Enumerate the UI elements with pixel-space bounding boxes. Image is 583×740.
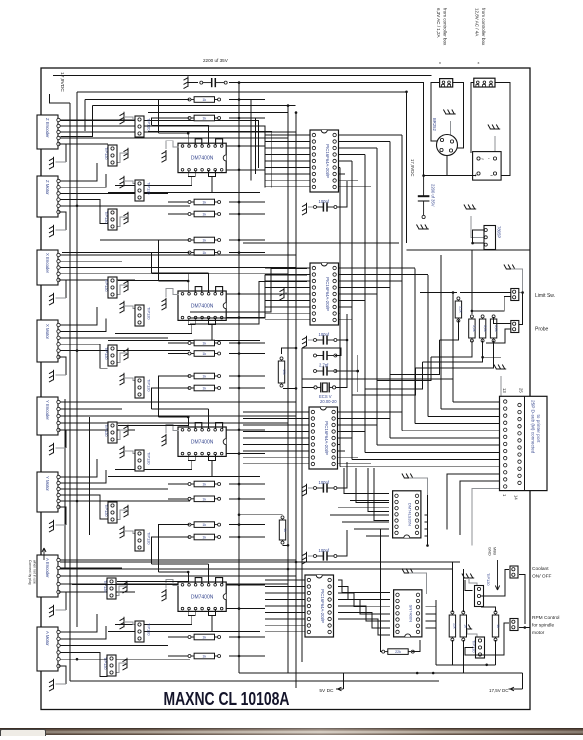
resistor X R3	[188, 373, 221, 379]
svg-text:1k: 1k	[202, 342, 206, 346]
wire A motor gnd	[59, 666, 66, 684]
wire IC microcontroller U3 PIC16F64A rpin 9	[336, 463, 371, 465]
wire IC microcontroller U2 PIC16F64A rpin 2	[337, 273, 428, 275]
svg-text:1k: 1k	[202, 213, 206, 217]
junction net 7	[238, 201, 241, 204]
wire IC microcontroller U2 PIC16F64A lpin 1	[265, 267, 311, 269]
wire bundle v4	[376, 148, 378, 445]
svg-text:TIP120: TIP120	[103, 657, 108, 670]
wire IC microcontroller U1 PIC16F64A lpin 5	[265, 160, 311, 162]
wire rect gnd lead	[494, 136, 496, 152]
wire PIC4 net 2	[338, 587, 390, 600]
connector Y Encoder	[37, 397, 60, 435]
wire IC microcontroller U2 PIC16F64A rpin 3	[337, 280, 402, 282]
wire X motor gnd	[59, 357, 66, 375]
resistor X R2	[188, 351, 221, 357]
wire Z under bus2	[108, 192, 260, 194]
ground Y IC	[162, 434, 167, 446]
wire IC microcontroller U4 PIC16F64A lpin 1	[265, 579, 306, 581]
wire 17.9VDC label hook	[49, 94, 70, 103]
svg-text:2,2k: 2,2k	[459, 306, 463, 313]
connector A Motor	[37, 627, 60, 671]
junction X motor pin5 rail	[76, 349, 79, 352]
wire Y encoder pin 3	[56, 415, 296, 417]
connector Z Encoder	[37, 115, 60, 149]
wire top gamma 4	[234, 118, 255, 174]
wire IC microcontroller U4 PIC16F64A lpin 4	[265, 598, 306, 600]
wire Z IC top bus2	[152, 124, 209, 126]
wire IC microcontroller U3 PIC16F64A rpin 1	[336, 411, 402, 413]
wire 74LS20 lpin 2	[350, 500, 389, 502]
junction A rpin top bus	[238, 584, 241, 587]
svg-text:GND: GND	[488, 547, 493, 556]
svg-text:2,2k: 2,2k	[494, 325, 498, 332]
wire Y IC top bus1	[159, 416, 189, 418]
wire Z R1 drop	[159, 100, 190, 134]
wire A motor pin 4	[57, 652, 108, 676]
wire A R1 drop	[159, 525, 190, 572]
wire limit row	[420, 292, 457, 294]
ground Z TIP120 3	[120, 176, 125, 188]
wire probe pin1	[494, 317, 511, 324]
resistor Z R6	[188, 250, 221, 256]
wire IC microcontroller U1 PIC16F64A rpin 5	[337, 160, 352, 162]
wire Z motor pin 4	[57, 200, 108, 224]
junction Y rpin top bus	[238, 429, 241, 432]
resistor Y R1	[188, 481, 221, 487]
ground Y motor	[49, 520, 54, 532]
wire 74LS20 lpin 5	[342, 521, 389, 523]
wire IC microcontroller U3 PIC16F64A lpin 3	[243, 424, 310, 426]
junction 5V bus top	[238, 81, 241, 84]
wire Z IC top stub2	[208, 125, 210, 145]
ground A encoder	[49, 605, 54, 617]
resistor Z R3	[188, 199, 221, 205]
svg-text:X Motor: X Motor	[45, 324, 50, 340]
wire R10k top	[282, 348, 297, 354]
svg-text:2,2k: 2,2k	[472, 325, 476, 332]
wire D-sub feed 4	[415, 423, 502, 425]
wire IC microcontroller U1 PIC16F64A lpin 7	[265, 173, 311, 175]
wire Rc3 bot	[495, 640, 497, 665]
svg-text:DM7400N: DM7400N	[191, 595, 214, 601]
wire Z IC bot drop2	[211, 177, 213, 193]
resistor R mid 1k	[279, 516, 287, 544]
gate bump right Y	[216, 423, 223, 429]
svg-text:TIP120: TIP120	[486, 573, 491, 586]
ground Y TIP120 4	[120, 526, 125, 538]
junction Rmid bottom	[287, 544, 290, 547]
wire sense jog 2	[377, 357, 431, 380]
svg-text:Limit Sw.: Limit Sw.	[535, 293, 555, 299]
wire 74LS20 gnd	[409, 478, 428, 495]
svg-text:TIP120: TIP120	[104, 147, 109, 160]
wire mid rail C	[301, 348, 303, 662]
capacitor crystal load b 2.7pf	[314, 366, 337, 375]
wire cap cluster right2	[335, 370, 358, 372]
wire Z encoder pin 3	[56, 131, 296, 133]
wire IC microcontroller U2 PIC16F64A lpin 4	[265, 286, 311, 288]
wire A IC rpin bot	[227, 608, 266, 610]
wire IC microcontroller U1 PIC16F64A rpin 3	[337, 147, 377, 149]
wire X R1 drop	[159, 240, 190, 281]
wire Y R1 right lead	[229, 483, 265, 485]
resistor R bias 22k	[382, 649, 415, 655]
wire top rail 2	[77, 92, 407, 243]
wire IC microcontroller U2 PIC16F64A rpin 7	[337, 306, 352, 308]
wire Z TIP 1 gnd	[124, 117, 136, 120]
wire mid rail A	[287, 106, 289, 673]
gate bump left Y	[195, 423, 202, 429]
wire IC microcontroller U1 PIC16F64A lpin 3	[265, 147, 311, 149]
wire A IC gnd stem	[166, 580, 178, 589]
wire IC microcontroller U2 PIC16F64A rpin 9	[337, 319, 352, 321]
wire Rc1 top	[451, 562, 453, 612]
ground A IC	[162, 589, 167, 601]
wire dsub gnd lead	[500, 376, 502, 396]
wire PIC2 stair 1	[190, 269, 307, 313]
gate bump right X	[216, 287, 223, 293]
wire bot bus 664	[436, 664, 496, 666]
wire Z IC top stub	[187, 133, 189, 145]
wire IC microcontroller U1 PIC16F64A lpin 8	[265, 179, 311, 181]
wire Rmid bottom lead	[283, 544, 289, 546]
wire IC microcontroller U1 PIC16F64A rpin 6	[337, 166, 340, 168]
IC microcontroller U1 PIC16F64A	[310, 130, 339, 192]
wire top gamma 3	[148, 112, 289, 114]
wire IC microcontroller U3 PIC16F64A lpin 9	[243, 463, 310, 465]
wire Z TIP 4 gnd	[116, 217, 128, 227]
resistor Rc3 1k	[492, 611, 500, 641]
svg-text:x: x	[439, 61, 441, 65]
svg-text:1k: 1k	[202, 523, 206, 527]
ground X TIP120 4	[120, 373, 125, 385]
wire X R3 left lead	[168, 375, 190, 377]
capacitor 100nf C1	[314, 202, 337, 211]
wire Z R5 left lead	[168, 239, 190, 241]
junction Z pin2 top	[187, 132, 190, 135]
wire A R2 right lead	[229, 655, 265, 657]
junction Z R2 bus	[238, 117, 241, 120]
wire rpm tip gnd stem	[467, 629, 477, 638]
IC quad NAND DM7400N Z axis	[178, 143, 226, 172]
wire A TIP 3 gnd	[115, 663, 127, 673]
wire PIC4 net 4	[338, 600, 390, 614]
wire IC microcontroller U3 PIC16F64A lpin 6	[243, 443, 310, 445]
wire D-sub feed 3	[428, 415, 502, 417]
wire IC microcontroller U4 PIC16F64A lpin 3	[265, 592, 306, 594]
resistor A R2	[188, 653, 221, 659]
arrow 5V DC	[336, 687, 343, 691]
svg-text:Z Encoder: Z Encoder	[45, 118, 50, 138]
svg-text:Connect by plug: Connect by plug	[28, 560, 32, 585]
svg-text:100nf: 100nf	[319, 480, 330, 485]
svg-text:PIC16F64A-20I/P: PIC16F64A-20I/P	[320, 589, 325, 623]
wire X motor pin 4	[57, 344, 108, 368]
transistor TIP120 X3	[104, 345, 117, 366]
wire xtal row bus	[302, 378, 454, 380]
wire Z motor pin 1	[57, 163, 97, 181]
resistor Z R2	[188, 115, 221, 121]
wire X R2 left lead	[168, 353, 190, 355]
wire Y R4 left lead	[168, 536, 190, 538]
svg-text:DM7400N: DM7400N	[191, 304, 214, 310]
wire Z IC bot bracket	[188, 170, 195, 176]
svg-text:1k: 1k	[202, 375, 206, 379]
ground Z TIP120 2	[124, 148, 129, 160]
junction X R1 bus	[238, 342, 241, 345]
wire top gamma 2	[61, 106, 93, 137]
svg-text:TIP120: TIP120	[147, 379, 152, 392]
wire 100nf C2 gnd stub	[308, 339, 313, 341]
wire IC microcontroller U1 PIC16F64A rpin 1	[337, 134, 402, 136]
wire 74LS20 lpin 3	[338, 507, 389, 509]
svg-text:DM7400N: DM7400N	[191, 440, 214, 446]
wire A IC bot drop2	[211, 615, 213, 631]
wire Y motor pin 3	[57, 488, 169, 490]
wire X encoder pin 4	[56, 273, 288, 275]
wire Z IC bot bracket2	[209, 170, 216, 176]
wire IC microcontroller U1 PIC16F64A rpin 8	[337, 179, 358, 181]
gate bump right Z	[216, 139, 223, 145]
wire Y R1 left lead	[168, 483, 190, 485]
wire A IC top bus1	[159, 571, 189, 573]
wire D-sub low feed 1	[447, 474, 502, 530]
wire D-sub feed 2	[441, 408, 502, 410]
wire Y motor pin 4	[57, 495, 108, 519]
wire Y R4 right lead	[229, 536, 265, 538]
wire A motor gnd stub	[56, 683, 66, 685]
svg-text:BR252: BR252	[432, 118, 437, 131]
svg-text:TIP120: TIP120	[147, 452, 152, 465]
wire X motor pin 2	[57, 318, 107, 331]
transistor TIP120 X2	[135, 305, 152, 326]
svg-text:DM74LS20N: DM74LS20N	[407, 503, 412, 526]
ground 7805	[464, 205, 476, 210]
gate bump left X	[195, 287, 202, 293]
wire mid rail gnd stub	[284, 292, 288, 294]
wire bundle v1	[339, 167, 341, 466]
junction Z R1 bus	[238, 98, 241, 101]
wire PIC2 stair 2	[190, 275, 307, 318]
ground TIP120 coolant	[462, 574, 474, 579]
svg-text:1k: 1k	[202, 483, 206, 487]
wire IC microcontroller U2 PIC16F64A lpin 6	[265, 299, 311, 301]
ground Y TIP120 3	[124, 505, 129, 517]
svg-text:1k: 1k	[496, 624, 500, 628]
wire limit line	[452, 293, 454, 402]
wire Z IC rpin bot	[227, 169, 266, 171]
wire A motor pin 2	[57, 626, 107, 639]
wire IC microcontroller U1 PIC16F64A lpin 2	[265, 140, 311, 142]
wire 100nf C4 gnd stub	[308, 487, 313, 489]
wire bundle v8	[427, 275, 429, 416]
wire probe line	[440, 255, 442, 409]
wire 74LS20 feed 3	[368, 468, 389, 512]
IC quad NAND SN7400N	[394, 590, 422, 637]
wire R10k bot	[283, 387, 296, 389]
wire IC microcontroller U1 PIC16F64A rpin 9	[337, 186, 371, 188]
wire PIC4 net 1	[338, 580, 390, 593]
junction net 14	[432, 672, 435, 675]
svg-text:100nf: 100nf	[319, 332, 330, 337]
crystal ECS	[314, 382, 336, 392]
wire X motor pin 5	[57, 350, 191, 352]
junction net 12	[426, 544, 429, 547]
junction 7805 in	[471, 242, 474, 245]
wire bottom bus y681	[70, 680, 439, 682]
svg-text:when not in use: when not in use	[33, 560, 37, 584]
wire Z IC rpin top	[227, 145, 266, 147]
resistor A R1	[188, 634, 221, 640]
wire crystal right	[336, 340, 347, 387]
ground Z TIP120 1	[120, 112, 125, 124]
connector 25P D-sub J3	[500, 396, 548, 490]
svg-text:for spindle: for spindle	[532, 623, 554, 629]
wire Y TIP 3 gnd	[116, 510, 128, 520]
junction Y pin2 top	[187, 416, 190, 419]
junction X rpin top bus	[238, 293, 241, 296]
svg-text:TIP120: TIP120	[147, 532, 152, 545]
wire IC microcontroller U3 PIC16F64A rpin 3	[336, 424, 377, 426]
svg-text:x: x	[478, 61, 480, 65]
wire Z R5 right lead	[229, 239, 265, 241]
wire X encoder pin 5	[56, 279, 135, 281]
wire PIC2 stair 3	[190, 282, 307, 325]
wire X IC gnd stem	[166, 289, 178, 298]
wire X motor gnd stub	[56, 374, 66, 376]
ground X motor	[49, 370, 54, 382]
junction Y R4 bus	[238, 536, 241, 539]
connector A Encoder	[37, 555, 60, 597]
transistor TIP120 X1	[104, 277, 117, 298]
ground 100nf C2	[302, 336, 307, 348]
wire Y encoder pin 5	[56, 429, 135, 431]
wire rpm left	[487, 623, 509, 655]
wire 17.5V drop	[521, 673, 523, 689]
wire A motor pin 3	[57, 645, 169, 647]
junction A motor pin5 rail	[76, 658, 79, 661]
transistor TIP120 Y1	[104, 422, 117, 443]
wire A IC bot bracket	[188, 609, 195, 615]
wire coolant tip gnd stem	[469, 578, 477, 586]
wire SN7400 rpin 3	[425, 606, 436, 608]
wire Z encoder pin 4	[56, 137, 288, 139]
connector X Motor	[37, 320, 60, 362]
IC quad NAND DM7400N A axis	[178, 582, 226, 611]
ground A TIP120 3	[123, 658, 128, 670]
wire IC microcontroller U4 PIC16F64A lpin 5	[265, 605, 306, 607]
wire IC microcontroller U1 PIC16F64A lpin 4	[265, 153, 311, 155]
wire Y IC bot bracket	[188, 454, 195, 460]
resistor Y R2	[188, 496, 221, 502]
ground main cap	[184, 76, 189, 88]
wire left rail C	[76, 92, 78, 627]
junction limit pin2	[471, 310, 474, 313]
wire SN7400 rbus	[435, 600, 437, 665]
junction X R2 bus	[238, 352, 241, 355]
wire IC microcontroller U1 PIC16F64A rpin 7	[337, 173, 345, 175]
wire 7805 in	[243, 242, 399, 244]
wire 2.2k bottom	[440, 320, 459, 340]
wire Z R4 right lead	[229, 213, 265, 215]
junction net 3	[346, 339, 349, 342]
wire sense jog 4	[352, 368, 415, 395]
wire A encoder pin 3	[56, 575, 296, 577]
junction net 6	[405, 91, 408, 94]
wire IC microcontroller U3 PIC16F64A lpin 4	[243, 430, 310, 432]
wire X R2 drop	[152, 253, 190, 274]
wire X IC top bus2	[152, 272, 209, 274]
junction A rpin bot bus	[238, 607, 241, 610]
wire rpm right	[519, 627, 530, 629]
wire X IC top bus1	[159, 280, 189, 282]
svg-text:Y Motor: Y Motor	[45, 476, 50, 492]
connector X Encoder	[37, 250, 60, 285]
svg-text:1k: 1k	[202, 201, 206, 205]
transistor TIP120 Z4	[104, 209, 117, 230]
svg-text:TIP120: TIP120	[104, 424, 109, 437]
transistor TIP120 Y3	[104, 502, 117, 523]
wire 100nf C5 right	[335, 530, 347, 556]
wire IC microcontroller U1 PIC16F64A lpin 1	[265, 134, 311, 136]
wire Y IC rpin bot	[227, 453, 266, 455]
wire D-sub feed 5	[402, 430, 502, 432]
wire sense jog 3	[365, 362, 422, 389]
wire IC microcontroller U4 PIC16F64A lpin 8	[265, 624, 306, 626]
wire A R2 left lead	[168, 655, 190, 657]
wire Z R6 right lead	[229, 252, 265, 254]
wire 17.9V node	[424, 175, 476, 177]
wire X R1 right lead	[229, 342, 265, 344]
wire long bus y562	[60, 561, 460, 563]
ground SN7400	[402, 569, 414, 574]
wire Y encoder gnd	[59, 430, 66, 448]
junction X pin2 top	[187, 280, 190, 283]
wire Z TIP 3 gnd	[124, 181, 136, 184]
wire A TIP 1 gnd	[115, 586, 127, 596]
wire A mid bus y584	[72, 584, 178, 586]
wire IC microcontroller U3 PIC16F64A rpin 7	[336, 450, 345, 452]
wire Z encoder gnd	[59, 144, 66, 162]
wire Y IC bot drop2	[211, 460, 213, 476]
transistor TIP120 X4	[135, 377, 152, 398]
connector rpm	[510, 619, 518, 631]
wire IC microcontroller U2 PIC16F64A rpin 6	[337, 299, 365, 301]
junction Z rpin top bus	[238, 145, 241, 148]
wire IC microcontroller U2 PIC16F64A rpin 8	[337, 312, 340, 314]
IC quad NAND DM7400N Y axis	[178, 427, 226, 456]
resistor pullup 2.2k	[455, 297, 463, 322]
wire A TIP1 link	[117, 572, 189, 582]
wire Y under bus2	[108, 475, 260, 477]
wire Y TIP1 link	[118, 417, 189, 426]
svg-text:25: 25	[519, 388, 524, 393]
wire X feed long b	[62, 252, 190, 254]
wire X IC bot bracket	[188, 318, 195, 324]
svg-text:14: 14	[514, 495, 519, 500]
wire IC microcontroller U2 PIC16F64A lpin 8	[265, 312, 311, 314]
junction cap cluster	[356, 370, 359, 373]
wire IC microcontroller U1 PIC16F64A lpin 6	[265, 166, 311, 168]
svg-text:22k: 22k	[395, 650, 401, 654]
svg-text:1k: 1k	[202, 117, 206, 121]
resistor Y R4	[188, 534, 221, 540]
svg-text:1k: 1k	[464, 624, 468, 628]
junction net 11	[238, 342, 241, 345]
connector limit switch	[511, 289, 519, 301]
wire IC microcontroller U2 PIC16F64A lpin 3	[265, 280, 311, 282]
